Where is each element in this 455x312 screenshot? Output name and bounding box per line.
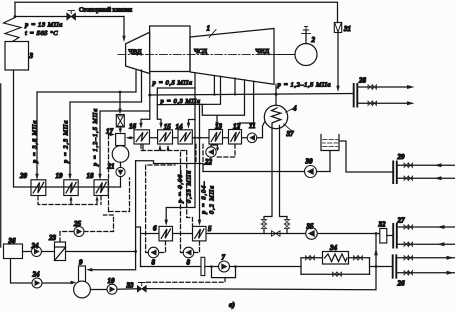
valve on right network pipe bbox=[284, 220, 289, 229]
valve: stop valve (Стопорный клапан) bbox=[67, 11, 76, 20]
text: label 21 bbox=[107, 163, 115, 171]
valve between pipe connections bbox=[272, 231, 281, 236]
text: label 29 bbox=[397, 153, 406, 161]
wire: tank 36 to makeup deaerator via pump 24 lower bbox=[11, 259, 32, 284]
text: vertical label p=0,06-0,25 МПа bbox=[177, 170, 193, 204]
svg-text:2: 2 bbox=[311, 36, 316, 44]
wire: tank 36 to gland cooler line bbox=[23, 251, 32, 253]
valve on left network pipe bbox=[261, 220, 266, 229]
svg-text:p = 2,3 МПа: p = 2,3 МПа bbox=[63, 120, 70, 164]
text: label 5 bbox=[208, 225, 212, 233]
svg-text:ЧНД: ЧНД bbox=[256, 48, 270, 55]
text: label 16 bbox=[129, 123, 137, 131]
text: label 33 bbox=[126, 282, 135, 290]
pump 35 network pump bbox=[306, 228, 318, 240]
network heater 6 bbox=[159, 226, 173, 241]
svg-text:34: 34 bbox=[329, 244, 338, 252]
pump 30 drain pump bbox=[305, 166, 317, 178]
svg-text:23: 23 bbox=[48, 234, 57, 242]
reducing valve 31 bbox=[334, 23, 341, 33]
feed heater 18 bbox=[94, 180, 108, 196]
pump 7 network return pump bbox=[219, 261, 230, 272]
turbine middle casing bbox=[150, 26, 190, 72]
turbine shaft centerline bbox=[118, 54, 295, 56]
svg-text:25: 25 bbox=[73, 220, 82, 228]
text: label 37 with leader bbox=[284, 124, 295, 138]
text: label 6 bbox=[153, 225, 157, 233]
drain pump 22 bbox=[206, 147, 216, 157]
heater 4 (network preheater) bbox=[264, 105, 287, 128]
wire: branch to heater 14 with arrow bbox=[187, 120, 195, 129]
text: label p=1,2-1,5 МПа exhaust bbox=[277, 82, 332, 89]
text: label 10 bbox=[108, 277, 116, 285]
text: label 20 bbox=[19, 172, 28, 180]
pump 24 lower bbox=[32, 278, 42, 288]
svg-text:Стопорный клапан: Стопорный клапан bbox=[79, 7, 132, 14]
svg-text:20: 20 bbox=[19, 172, 28, 180]
wire: to vacuum deaerator 9 with arrow bbox=[42, 281, 76, 285]
regulator 32 bbox=[380, 229, 387, 244]
wire: dashed drain header under LP heaters bbox=[141, 144, 196, 162]
text: vertical label p=0,04-0,2 МПа bbox=[201, 181, 216, 215]
text: vertical label p=1,2-1,5 МПа bbox=[92, 108, 99, 167]
svg-text:36: 36 bbox=[8, 237, 17, 245]
wire: steam line p=0,5 МПа main header to industrial collector bbox=[148, 93, 353, 97]
svg-text:28: 28 bbox=[358, 77, 367, 85]
svg-text:p = 13 МПа: p = 13 МПа bbox=[24, 22, 63, 29]
makeup tank 36 bbox=[4, 244, 23, 259]
svg-text:14: 14 bbox=[176, 123, 184, 131]
text: label 19 bbox=[56, 172, 64, 180]
text: label 8 left bbox=[152, 259, 156, 267]
wire: pump 24 to cooler 23 bbox=[42, 251, 55, 253]
wire: main steam line from boiler with junction node bbox=[14, 2, 124, 18]
pump 24 upper bbox=[32, 247, 42, 257]
flow element on return line bbox=[201, 257, 205, 275]
coil 37 inside heater 4 bbox=[272, 108, 281, 123]
text: label 4 with leader bbox=[286, 105, 298, 113]
wire: drains cascade of HP heaters (dashed) bbox=[38, 196, 101, 205]
drain tank with water bbox=[321, 135, 339, 151]
svg-text:ЧСД: ЧСД bbox=[194, 48, 207, 55]
svg-text:37: 37 bbox=[286, 130, 295, 138]
wire: main condensate line with arrow into deaerator column bbox=[126, 136, 263, 139]
wire: condensate transfer to deaerator 9 riser bbox=[135, 161, 137, 252]
svg-text:18: 18 bbox=[87, 172, 95, 180]
heater 14 bbox=[178, 130, 192, 144]
heater 16 bbox=[134, 130, 150, 144]
text: ЧВД ЧСД ЧНД bbox=[129, 48, 270, 56]
svg-text:9: 9 bbox=[79, 259, 83, 267]
wire: steam to consumers upper with valves and arrow bbox=[358, 85, 415, 90]
wire: return condensate upper with valves and arrow bbox=[397, 163, 455, 168]
wire: network water pipes from heater 4 coil bbox=[264, 124, 287, 220]
wire: return condensate lower with valves and arrow bbox=[397, 176, 455, 181]
text: label 22 bbox=[204, 158, 213, 166]
text: label 32 bbox=[378, 221, 387, 229]
text: label 25 bbox=[73, 220, 82, 228]
pump 10 transfer pump bbox=[107, 284, 117, 294]
svg-text:17: 17 bbox=[106, 128, 114, 136]
svg-text:ЧВД: ЧВД bbox=[129, 49, 143, 56]
deaerator admission valve bbox=[116, 115, 124, 128]
wire: extraction line p=3,8 МПа to heater 20 bbox=[35, 71, 136, 180]
wire: heater 34 bypass lower with valve bbox=[301, 272, 370, 277]
wire: supply main upper to consumers with valves and arrow bbox=[397, 256, 455, 261]
text: Стопорный клапан bbox=[79, 7, 132, 14]
text: label 9 bbox=[79, 259, 83, 267]
text: label 14 bbox=[176, 123, 184, 131]
wire: condensate into deaerator 9 with arrow bbox=[86, 252, 135, 272]
svg-text:30: 30 bbox=[305, 158, 314, 166]
drain pump 8 of heater 5 bbox=[183, 247, 194, 258]
wire: dashed lines around pump 25 bbox=[60, 178, 130, 242]
wire: riser into tank bbox=[329, 151, 331, 172]
wire: heater 34 loop right riser to collector 26 bbox=[370, 258, 393, 274]
wire: dashed drain riser into deaerator column bbox=[109, 135, 112, 212]
svg-text:а): а) bbox=[229, 301, 235, 309]
network heater 5 bbox=[193, 226, 207, 241]
text: label 7 bbox=[222, 254, 226, 262]
pump 11 condensate pump bbox=[247, 133, 257, 143]
text: vertical label p=3,8 МПа bbox=[32, 120, 39, 164]
text: label 27 bbox=[397, 217, 406, 225]
wire: deaerator 9 to transfer pump 10 bbox=[90, 289, 107, 291]
svg-text:1: 1 bbox=[207, 25, 211, 33]
svg-text:21: 21 bbox=[107, 163, 115, 171]
text: p = 13 МПа / t = 565 C bbox=[24, 22, 63, 38]
wire: branch to heater 13 with arrow bbox=[202, 80, 244, 128]
wire: steam downcomer to network heater 6 bbox=[164, 73, 195, 226]
collector 27 header bar bbox=[393, 224, 397, 248]
svg-text:33: 33 bbox=[126, 282, 135, 290]
wire: steam downcomer to network heater 5 bbox=[198, 105, 202, 226]
svg-text:10: 10 bbox=[108, 277, 116, 285]
turbine MP-LP section ЧСД-ЧНД bbox=[190, 29, 274, 85]
svg-text:p = 1,2–1,5 МПа: p = 1,2–1,5 МПа bbox=[92, 108, 99, 167]
wire: reducing valve discharge with arrow onto industrial steam line bbox=[336, 33, 339, 93]
wire: boiler bypass line to reducing valve 31 bbox=[15, 2, 338, 22]
wire: pipes join supply network line bbox=[264, 229, 287, 234]
makeup control valve 33 bbox=[137, 283, 146, 293]
text: label 28 bbox=[358, 77, 367, 85]
wire: cooler 23 to deaerator 9 line bbox=[66, 250, 138, 253]
wire: solid drain collector from heater 16 zone bbox=[136, 144, 203, 171]
text: label p=0,3 МПа bbox=[160, 98, 201, 105]
text: label 13 bbox=[215, 123, 223, 131]
arrow: drain into deaerator column bbox=[110, 133, 115, 136]
wire: return network line B through pump 7 bbox=[141, 266, 302, 268]
wire: feedwater line through HP heaters bbox=[14, 186, 121, 188]
svg-text:p = 1,2–1,5 МПа: p = 1,2–1,5 МПа bbox=[277, 82, 332, 89]
text: label 26 bbox=[397, 280, 406, 288]
collector 29 header bar bbox=[393, 162, 397, 184]
svg-text:p = 0,5 МПа: p = 0,5 МПа bbox=[152, 80, 193, 87]
boiler economizer box 3 bbox=[5, 42, 29, 71]
text: label p=0,5 МПа bbox=[152, 80, 193, 87]
svg-text:29: 29 bbox=[397, 153, 406, 161]
svg-text:p = 0,04–: p = 0,04– bbox=[201, 181, 208, 215]
heater 13 bbox=[209, 130, 223, 145]
wire: heater 34 bypass loop left riser bbox=[300, 258, 302, 274]
wire: steam to deaerator valve with arrow bbox=[118, 92, 121, 115]
feed heater 19 bbox=[64, 180, 78, 196]
wire: pump 10 to makeup control valve 33 bbox=[117, 288, 137, 290]
wire: dashed riser between heaters bbox=[187, 151, 193, 227]
text: label 30 bbox=[305, 158, 314, 166]
generator 2 bbox=[274, 26, 317, 65]
boiler zigzag symbol bbox=[4, 18, 22, 42]
wire: extraction line p=1,2-1,5 МПа to heater 18 bbox=[98, 111, 150, 180]
heater 15 bbox=[158, 130, 173, 144]
wire: return main lower from consumers with valves and arrow bbox=[397, 242, 455, 247]
text: label 2 bbox=[311, 36, 316, 44]
wire: 0,3 МПа extraction line bbox=[157, 76, 220, 104]
text: label 24 upper bbox=[31, 242, 40, 250]
svg-text:6: 6 bbox=[153, 225, 157, 233]
pump 21 feed pump bbox=[116, 162, 125, 187]
text: label 12 bbox=[233, 123, 241, 131]
wire: pump 22 discharge with arrow into condensate line bbox=[203, 145, 219, 165]
wire: pump 7 bypass loop bbox=[210, 265, 237, 277]
svg-text:12: 12 bbox=[233, 123, 241, 131]
svg-text:35: 35 bbox=[306, 223, 315, 231]
wire: valve to deaerator column with arrow bbox=[119, 127, 122, 134]
heater 12 bbox=[229, 130, 242, 145]
svg-text:8: 8 bbox=[152, 259, 156, 267]
wire: return main upper from consumers with valves and arrow bbox=[397, 225, 455, 230]
text: label 36 bbox=[8, 237, 17, 245]
wire: steam admission into HP turbine with arrow bbox=[122, 17, 125, 43]
svg-text:13: 13 bbox=[215, 123, 223, 131]
wire: HP exhaust stub feeding heater 16 bbox=[139, 72, 150, 129]
svg-text:24: 24 bbox=[31, 242, 40, 250]
text: label 3 bbox=[29, 52, 34, 60]
text: label 31 bbox=[343, 25, 351, 33]
wire: branch to network water line bbox=[136, 227, 141, 267]
wire: feedwater riser to boiler bbox=[13, 70, 15, 187]
text: label 8 right bbox=[187, 259, 191, 267]
text: label 1 with leader tick bbox=[207, 25, 217, 38]
scan edge artifact bbox=[0, 84, 2, 247]
turbine HP section ЧВД bbox=[126, 32, 150, 73]
wire: 0,5 МПа branch line to heater 15 bbox=[157, 88, 195, 129]
svg-text:24: 24 bbox=[32, 271, 41, 279]
arrow: drain into heater 18 bbox=[96, 196, 99, 201]
wire: regulator to collector 27 bbox=[387, 235, 393, 237]
svg-text:27: 27 bbox=[397, 217, 406, 225]
gland steam cooler 23 bbox=[55, 242, 66, 261]
text: label 17 bbox=[106, 128, 114, 136]
svg-text:7: 7 bbox=[222, 254, 226, 262]
svg-text:3: 3 bbox=[29, 52, 34, 60]
text: label 35 bbox=[306, 223, 315, 231]
svg-text:16: 16 bbox=[129, 123, 137, 131]
wire: tank overflow to collector 29 bbox=[339, 141, 393, 172]
wire: heater 34 branch upper with valves bbox=[301, 256, 370, 261]
vacuum deaerator 9 tank bbox=[74, 281, 91, 298]
svg-text:31: 31 bbox=[343, 25, 351, 33]
arrow: drain into heater 15 right bbox=[167, 145, 170, 151]
wire: supply main lower to consumers with valves and arrow bbox=[397, 271, 455, 276]
industrial steam collector 28 bbox=[354, 84, 358, 107]
text: vertical label p=2,3 МПа bbox=[63, 120, 70, 164]
svg-text:32: 32 bbox=[378, 221, 387, 229]
wire: pump 8 discharge dashed riser bbox=[146, 165, 175, 253]
pump 25 ejector pump bbox=[74, 227, 84, 237]
wire: condensate from heater 4 to pump 11 bbox=[263, 122, 265, 138]
wire: turbine exhaust to heater 4 bbox=[275, 84, 277, 106]
svg-text:11: 11 bbox=[249, 122, 256, 130]
wire: network supply line A to collector 27 bbox=[141, 233, 380, 235]
text: label 23 bbox=[48, 234, 57, 242]
node: deaerator steam tap on extraction line bbox=[119, 91, 122, 94]
wire: drains line to pump 30 and drain tank bbox=[203, 171, 330, 173]
text: label 15 bbox=[164, 123, 172, 131]
wire: turbine extraction stub to 0,5 МПа header bbox=[213, 76, 215, 95]
arrow: drain into heater 15 left bbox=[159, 145, 162, 151]
wire: pump 8 right discharge dashed riser bbox=[181, 151, 184, 253]
wire: heater 6 drain to pump 8 (dashed) bbox=[159, 241, 166, 253]
deaerator column 17 bbox=[116, 134, 125, 146]
svg-text:26: 26 bbox=[397, 280, 406, 288]
vacuum deaerator 9 column bbox=[79, 266, 86, 282]
text: label 34 bbox=[329, 244, 338, 252]
svg-text:19: 19 bbox=[56, 172, 64, 180]
wire: extraction line p=2,3 МПа to heater 19 bbox=[68, 70, 141, 180]
svg-text:0,2 МПа: 0,2 МПа bbox=[209, 185, 216, 214]
wire: LP extraction to heater 12 with arrow bbox=[238, 81, 254, 129]
svg-text:15: 15 bbox=[164, 123, 172, 131]
drain pump 8 of heater 6 bbox=[148, 247, 159, 258]
arrow: drain into heater 19 bbox=[70, 196, 73, 201]
text: label 18 bbox=[87, 172, 95, 180]
svg-text:8: 8 bbox=[187, 259, 191, 267]
feed heater 20 bbox=[31, 180, 46, 196]
wire: heater 5 drain to pump 8 (dashed) bbox=[194, 241, 200, 253]
deaerator tank bbox=[112, 146, 129, 163]
text: label 24 lower bbox=[32, 271, 41, 279]
text: label 11 bbox=[249, 122, 256, 130]
collector 26 header bar bbox=[393, 255, 397, 277]
wire: turbine extraction stub at x235 bbox=[234, 78, 236, 94]
peak heater 34 bbox=[323, 252, 349, 265]
svg-text:p = 3,8 МПа: p = 3,8 МПа bbox=[32, 120, 39, 164]
svg-text:5: 5 bbox=[208, 225, 212, 233]
wire: makeup water line to network with rising arrow bbox=[147, 232, 378, 290]
text: figure label a) bbox=[229, 301, 235, 309]
svg-text:t = 565 °С: t = 565 °С bbox=[25, 30, 58, 37]
wire: drain of heater 13 dashed bbox=[203, 144, 235, 164]
wire: recirculation dashed line from valve 33 to pump 7 loop bbox=[147, 278, 226, 283]
wire: steam to consumers lower with valves and arrow bbox=[358, 101, 415, 106]
